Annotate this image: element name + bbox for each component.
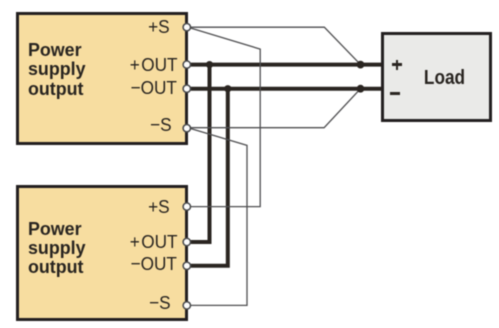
terminal U2 -S	[183, 302, 190, 309]
terminal U1 -S	[183, 125, 190, 132]
wire U2 -OUT up to - bus	[187, 89, 228, 266]
terminal U1 +OUT	[183, 61, 190, 68]
wire U2 +OUT up to + bus	[187, 65, 210, 242]
U2 pin label +OUT	[129, 233, 177, 253]
terminal U2 +S	[183, 203, 190, 210]
junction dot + sense at load	[357, 61, 365, 69]
junction dot - bus / U2 -OUT	[224, 85, 231, 92]
terminal U1 +S	[183, 24, 190, 31]
U1 pin label +OUT	[129, 56, 177, 76]
wire U1 -OUT to load - (thick bus)	[187, 87, 382, 91]
U2 pin label -S	[149, 294, 171, 314]
load box	[381, 32, 493, 123]
load - polarity label	[390, 92, 400, 95]
wire U1 -S down to U2 -S	[188, 128, 247, 306]
U1 pin label +S	[148, 18, 170, 38]
junction dot + bus / U2 +OUT	[206, 61, 213, 68]
U2 pin label -OUT	[131, 255, 177, 275]
wire U1 +S down to U2 +S	[188, 27, 260, 206]
wire U1 +OUT to load + (thick bus)	[187, 63, 382, 67]
terminal U1 -OUT	[183, 85, 190, 92]
power supply U1 label	[28, 40, 86, 98]
U1 pin label -S	[150, 116, 172, 136]
load name label	[410, 66, 478, 90]
power supply U2 box	[16, 185, 189, 322]
U2 pin label +S	[148, 198, 170, 218]
junction dot - sense at load	[357, 85, 365, 93]
terminal U2 +OUT	[183, 238, 190, 245]
power supply U1 box	[16, 12, 189, 145]
terminal U2 -OUT	[183, 262, 190, 269]
load + polarity label	[392, 63, 402, 66]
wire U1 +S sense to load + node	[188, 27, 361, 64]
wire U1 -S sense to load - node	[188, 89, 361, 128]
power supply U2 label	[28, 219, 86, 277]
U1 pin label -OUT	[131, 79, 177, 99]
